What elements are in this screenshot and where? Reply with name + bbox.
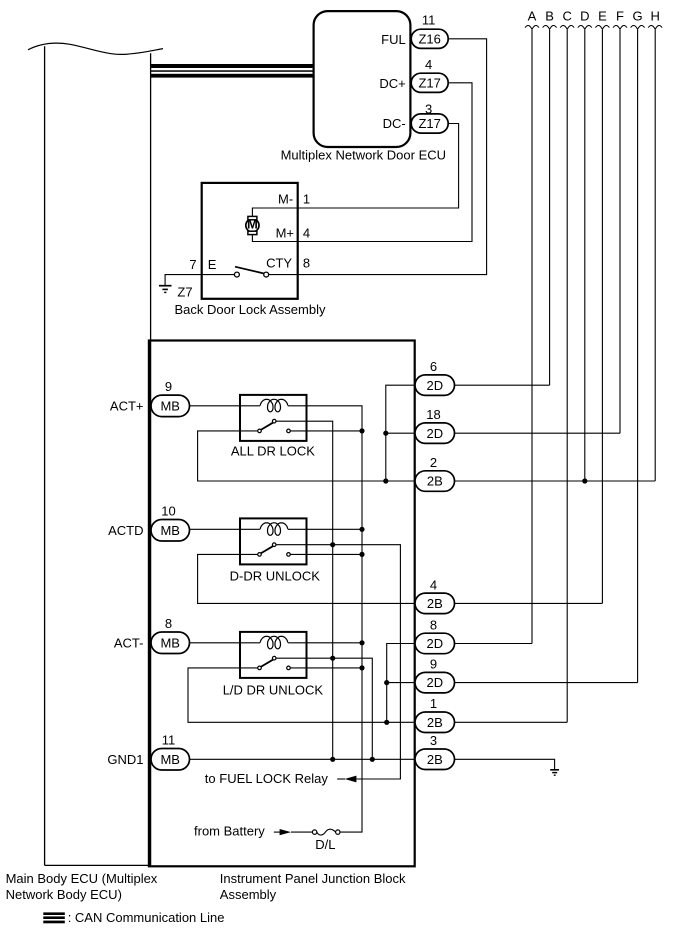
wire ALL DR LOCK movable contact to GND1 line bbox=[276, 421, 333, 759]
svg-text:2D: 2D bbox=[426, 675, 443, 690]
wire coil bus (ALL coil out down to D/L battery line) bbox=[288, 406, 362, 832]
CAN communication line legend symbol bbox=[43, 912, 65, 923]
svg-text:1: 1 bbox=[430, 696, 437, 711]
wire ACT- MB to L/D DR UNLOCK coil bbox=[190, 642, 261, 644]
Multiplex Network Door ECU box bbox=[314, 11, 411, 147]
svg-text:Instrument Panel Junction Bloc: Instrument Panel Junction Block bbox=[220, 871, 406, 886]
svg-text:2D: 2D bbox=[426, 426, 443, 441]
wire 2D pin 6 branch down to 2B pin 2 line bbox=[386, 385, 415, 481]
svg-text:Network Body ECU): Network Body ECU) bbox=[6, 887, 122, 902]
svg-text:M-: M- bbox=[278, 191, 293, 206]
svg-text:L/D DR UNLOCK: L/D DR UNLOCK bbox=[223, 683, 324, 698]
connector Z17 pin 3 bbox=[411, 102, 448, 134]
svg-text:2B: 2B bbox=[427, 474, 443, 489]
relay ALL DR LOCK switch bbox=[258, 419, 291, 432]
node B (continuation) bbox=[543, 9, 557, 386]
wire 2B pin 3 to body ground bbox=[455, 759, 555, 769]
connector 2B pin 1 bbox=[415, 696, 455, 732]
svg-text:18: 18 bbox=[426, 407, 440, 422]
pin label E / 7 bbox=[189, 257, 216, 272]
svg-text:8: 8 bbox=[303, 256, 310, 271]
Main Body ECU box (torn-edge outline) bbox=[28, 43, 163, 865]
connector MB pin 8 (ACT-) bbox=[151, 616, 190, 653]
svg-text:ALL DR LOCK: ALL DR LOCK bbox=[231, 443, 315, 458]
relay D-DR UNLOCK switch bbox=[258, 543, 291, 556]
connector 2B pin 2 bbox=[415, 455, 455, 491]
wire L/D coil out bbox=[288, 642, 362, 644]
wire 2B pin 4 to node E bbox=[455, 602, 603, 604]
connector MB pin 9 (ACT+) bbox=[151, 379, 190, 416]
svg-text:D-DR UNLOCK: D-DR UNLOCK bbox=[230, 569, 321, 584]
relay ALL DR LOCK coil bbox=[260, 399, 288, 412]
svg-text:MB: MB bbox=[160, 635, 180, 650]
svg-text:M+: M+ bbox=[276, 225, 294, 240]
svg-text:6: 6 bbox=[430, 359, 437, 374]
svg-text:C: C bbox=[563, 9, 572, 24]
Instrument Panel Junction Block Assembly box bbox=[149, 341, 415, 867]
svg-text:Z7: Z7 bbox=[177, 285, 192, 300]
wire ACTD MB to D-DR UNLOCK coil bbox=[190, 528, 261, 530]
svg-text:CTY: CTY bbox=[266, 256, 292, 271]
svg-text:ACT-: ACT- bbox=[114, 635, 144, 650]
wire GND1 MB to 2B pin 3 bbox=[190, 758, 416, 760]
svg-text:Back Door Lock Assembly: Back Door Lock Assembly bbox=[174, 302, 326, 317]
relay L/D DR UNLOCK switch bbox=[258, 656, 291, 669]
wire D-DR switch left to 2B pin 4 bbox=[198, 554, 415, 603]
junction GND1/L-D contact bbox=[370, 757, 375, 762]
relay D-DR UNLOCK coil bbox=[260, 523, 288, 536]
wire FUL Z16 to CTY pin 8 bbox=[269, 39, 487, 275]
node G (continuation) bbox=[631, 9, 645, 683]
junction L/D contact line bbox=[330, 656, 335, 661]
svg-text:F: F bbox=[616, 9, 624, 24]
wire D-DR movable contact to FUEL LOCK relay line bbox=[276, 545, 400, 779]
svg-text:DC+: DC+ bbox=[379, 76, 405, 91]
wire 2D pin 18 to node F bbox=[455, 432, 621, 434]
relay D-DR UNLOCK box bbox=[240, 518, 307, 564]
svg-text:E: E bbox=[208, 257, 217, 272]
svg-text:4: 4 bbox=[425, 57, 432, 72]
node A (continuation) bbox=[525, 9, 539, 644]
arrow from Battery bbox=[274, 829, 313, 835]
courtesy switch CTY bbox=[234, 267, 268, 277]
svg-text:E: E bbox=[598, 9, 607, 24]
connector 2D pin 6 bbox=[415, 359, 455, 395]
svg-text:Z17: Z17 bbox=[418, 116, 440, 131]
arrow to FUEL LOCK Relay bbox=[337, 776, 356, 783]
svg-text:10: 10 bbox=[161, 504, 175, 519]
svg-text:DC-: DC- bbox=[383, 116, 406, 131]
motor M (door lock motor) bbox=[246, 216, 259, 234]
connector MB pin 11 (GND1) bbox=[151, 733, 190, 770]
connector Z16 pin 11 bbox=[411, 13, 448, 49]
relay L/D DR UNLOCK coil bbox=[260, 636, 288, 649]
wire 2D pin 6 to node B bbox=[455, 384, 550, 386]
junction 2B2 branch bbox=[383, 478, 388, 483]
svg-text:Multiplex Network Door ECU: Multiplex Network Door ECU bbox=[281, 147, 446, 162]
wire E to ground bbox=[165, 275, 234, 286]
wire D-DR coil out bbox=[288, 528, 362, 530]
junction D-DR contact line bbox=[330, 542, 335, 547]
svg-text:: CAN Communication Line: : CAN Communication Line bbox=[68, 910, 225, 925]
svg-text:M: M bbox=[247, 216, 258, 231]
svg-text:ACTD: ACTD bbox=[108, 523, 143, 538]
svg-text:2: 2 bbox=[430, 455, 437, 470]
junction L/D switch/bus bbox=[359, 665, 364, 670]
wire L/D switch left to 2B pin 1 bbox=[188, 668, 415, 722]
wire L/D movable contact down to GND1 line bbox=[276, 658, 372, 759]
svg-text:Main Body ECU (Multiplex: Main Body ECU (Multiplex bbox=[6, 871, 158, 886]
svg-text:Z16: Z16 bbox=[418, 31, 440, 46]
node D (continuation) bbox=[578, 9, 592, 481]
svg-text:8: 8 bbox=[165, 616, 172, 631]
pin label CTY / 8 bbox=[266, 256, 310, 271]
svg-text:H: H bbox=[651, 9, 660, 24]
svg-text:2B: 2B bbox=[427, 752, 443, 767]
wire 2D pin 8 to node A bbox=[455, 643, 533, 645]
wire ALL switch left to 2B pin 2 bbox=[198, 431, 415, 481]
pin label M- / 1 bbox=[278, 191, 310, 206]
svg-text:11: 11 bbox=[422, 13, 436, 28]
node C (continuation) bbox=[560, 9, 574, 723]
connector 2D pin 18 bbox=[415, 407, 455, 443]
svg-text:FUL: FUL bbox=[381, 32, 406, 47]
svg-text:9: 9 bbox=[165, 379, 172, 394]
svg-text:7: 7 bbox=[189, 257, 196, 272]
svg-text:MB: MB bbox=[160, 523, 180, 538]
wire 2D pin 8 branch down to 2B pin 1 line bbox=[387, 644, 415, 723]
svg-text:D: D bbox=[580, 9, 589, 24]
svg-text:G: G bbox=[633, 9, 643, 24]
svg-text:2D: 2D bbox=[426, 378, 443, 393]
svg-text:4: 4 bbox=[303, 225, 310, 240]
node F (continuation) bbox=[613, 9, 627, 434]
junction ALL switch/bus bbox=[359, 428, 364, 433]
svg-text:11: 11 bbox=[162, 733, 176, 748]
wire ACT+ MB to ALL DR LOCK coil bbox=[190, 405, 261, 407]
node H (continuation) bbox=[648, 9, 662, 481]
svg-text:MB: MB bbox=[160, 752, 180, 767]
connector 2B pin 3 bbox=[415, 733, 455, 769]
wire 2B pin 1 to node C bbox=[455, 721, 568, 723]
junction D-DR coil/bus bbox=[359, 527, 364, 532]
wire 2B pin 2 to node H bbox=[455, 480, 656, 482]
svg-text:MB: MB bbox=[160, 398, 180, 413]
svg-text:4: 4 bbox=[430, 577, 437, 592]
relay L/D DR UNLOCK box bbox=[240, 632, 307, 678]
wire DC- Z17 to M- pin 1 bbox=[252, 124, 458, 221]
circuit breaker D/L bbox=[312, 829, 340, 852]
svg-text:ACT+: ACT+ bbox=[110, 398, 144, 413]
svg-text:Assembly: Assembly bbox=[220, 887, 277, 902]
Back Door Lock Assembly box bbox=[202, 183, 298, 299]
svg-text:2D: 2D bbox=[426, 636, 443, 651]
junction 2B1 branch bbox=[384, 720, 389, 725]
relay ALL DR LOCK box bbox=[240, 395, 307, 441]
pin label M+ / 4 bbox=[276, 225, 311, 240]
wire D-DR switch right to bus bbox=[290, 553, 362, 555]
svg-text:A: A bbox=[528, 9, 537, 24]
label Main Body ECU bbox=[6, 871, 158, 902]
connector Z17 pin 4 bbox=[411, 57, 448, 93]
connector 2D pin 9 bbox=[415, 657, 455, 693]
ground (body ground at 2B pin 3) bbox=[550, 770, 559, 775]
connector MB pin 10 (ACTD) bbox=[151, 504, 190, 541]
junction D-DR switch/bus bbox=[359, 552, 364, 557]
svg-text:to FUEL LOCK Relay: to FUEL LOCK Relay bbox=[205, 771, 329, 786]
svg-text:8: 8 bbox=[430, 617, 437, 632]
junction 2D9 branch bbox=[384, 680, 389, 685]
svg-text:1: 1 bbox=[303, 191, 310, 206]
node E (continuation) bbox=[595, 9, 609, 604]
svg-text:from Battery: from Battery bbox=[194, 824, 265, 839]
svg-text:GND1: GND1 bbox=[107, 752, 143, 767]
svg-text:3: 3 bbox=[430, 733, 437, 748]
wire branch to 2D pin 9 bbox=[387, 682, 415, 684]
junction L/D coil/bus bbox=[359, 640, 364, 645]
svg-text:9: 9 bbox=[430, 657, 437, 672]
svg-text:D/L: D/L bbox=[315, 837, 335, 852]
CAN communication line (thick bus between Main Body ECU and Door ECU) bbox=[151, 64, 314, 78]
svg-text:2B: 2B bbox=[427, 596, 443, 611]
ground Z7 bbox=[159, 285, 193, 300]
label Instrument Panel Junction Block Assembly bbox=[220, 871, 406, 902]
wire ALL switch right to bus bbox=[290, 430, 362, 432]
wire branch to 2D pin 18 bbox=[386, 432, 415, 434]
wire 2D pin 9 to node G bbox=[455, 682, 638, 684]
svg-text:Z17: Z17 bbox=[418, 75, 440, 90]
connector 2B pin 4 bbox=[415, 577, 455, 613]
svg-text:B: B bbox=[545, 9, 554, 24]
junction 2B2/node D bbox=[582, 478, 587, 483]
junction GND1/contact bus bbox=[330, 757, 335, 762]
svg-text:2B: 2B bbox=[427, 715, 443, 730]
wire L/D switch right to bus bbox=[290, 667, 362, 669]
wire DC+ Z17 to M+ pin 4 bbox=[252, 83, 472, 242]
connector 2D pin 8 bbox=[415, 617, 455, 653]
junction 2D18 branch bbox=[383, 431, 388, 436]
